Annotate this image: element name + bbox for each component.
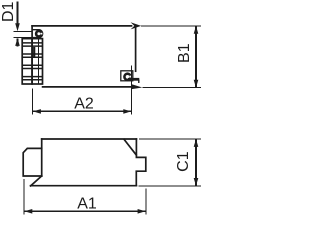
clip arm [128, 78, 139, 81]
dimension A2 [33, 66, 132, 115]
clip circle [124, 74, 130, 80]
svg-text:A1: A1 [77, 195, 97, 212]
earth hole [36, 31, 41, 36]
dimension B1 [141, 26, 201, 88]
clip box [121, 71, 133, 81]
svg-text:D1: D1 [0, 1, 17, 22]
earth tab [33, 30, 43, 38]
wedge chamfer line [124, 139, 136, 155]
svg-text:C1: C1 [175, 151, 192, 172]
bottom-right pointed tab [132, 84, 143, 89]
side view body outline [23, 139, 146, 186]
dimension D1 [14, 2, 33, 47]
top-right pointed tab [131, 22, 142, 29]
top view body outline [32, 26, 136, 87]
svg-text:B1: B1 [176, 43, 193, 63]
dimension A1 [24, 179, 146, 215]
dimension C1 [139, 139, 202, 186]
svg-text:A2: A2 [74, 95, 94, 112]
terminal block [22, 39, 42, 84]
